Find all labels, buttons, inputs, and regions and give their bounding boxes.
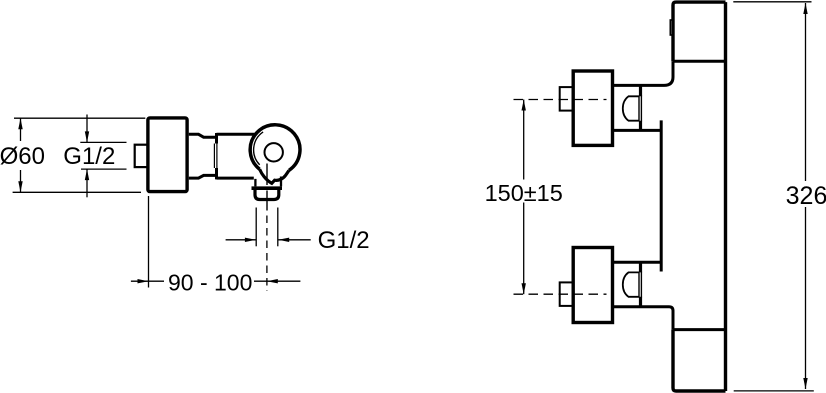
svg-text:G1/2: G1/2 — [318, 227, 370, 254]
svg-text:90 - 100: 90 - 100 — [168, 269, 252, 295]
svg-text:G1/2: G1/2 — [63, 143, 115, 170]
svg-text:150±15: 150±15 — [485, 180, 563, 206]
svg-text:Ø60: Ø60 — [0, 143, 45, 170]
svg-text:326: 326 — [786, 182, 826, 210]
